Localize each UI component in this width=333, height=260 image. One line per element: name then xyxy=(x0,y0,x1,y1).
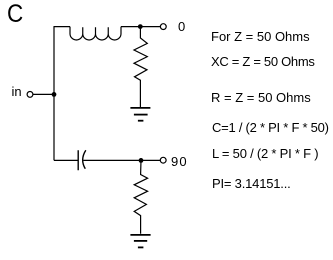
capacitor C1 xyxy=(78,150,86,170)
wire: capacitor to node C and terminal 90 xyxy=(83,159,160,161)
text: R = Z = 50 Ohms xyxy=(211,91,311,104)
terminal: 0 output (open circle) xyxy=(160,24,166,30)
wire: bottom branch to capacitor xyxy=(54,159,78,161)
label 0 xyxy=(178,20,185,33)
label in xyxy=(12,85,22,98)
inductor L1 xyxy=(70,27,121,40)
wire: inductor to node B and terminal 0 xyxy=(121,26,160,28)
text: For Z = 50 Ohms xyxy=(211,30,310,43)
text: XC = Z = 50 Ohms xyxy=(211,55,315,68)
text: C=1 / (2 * PI * F * 50) xyxy=(212,121,329,134)
text: PI= 3.14151... xyxy=(212,177,291,190)
resistor R bottom xyxy=(134,160,147,233)
terminal: in (open circle) xyxy=(27,92,33,98)
node A junction dot xyxy=(52,92,57,97)
text: L = 50 / (2 * PI * F ) xyxy=(212,147,318,160)
resistor R top xyxy=(134,27,147,107)
node C junction dot xyxy=(139,158,144,163)
wire: left vertical bus xyxy=(53,27,55,161)
wire: in terminal to node A xyxy=(33,93,53,95)
label C (section letter) xyxy=(7,2,23,27)
terminal: 90 output (open circle) xyxy=(160,157,166,163)
label 90 xyxy=(171,155,188,168)
ground (top) xyxy=(130,108,150,121)
ground (bottom) xyxy=(130,235,150,248)
node B junction dot xyxy=(138,24,143,29)
wire: top-left horizontal to inductor xyxy=(54,26,71,28)
